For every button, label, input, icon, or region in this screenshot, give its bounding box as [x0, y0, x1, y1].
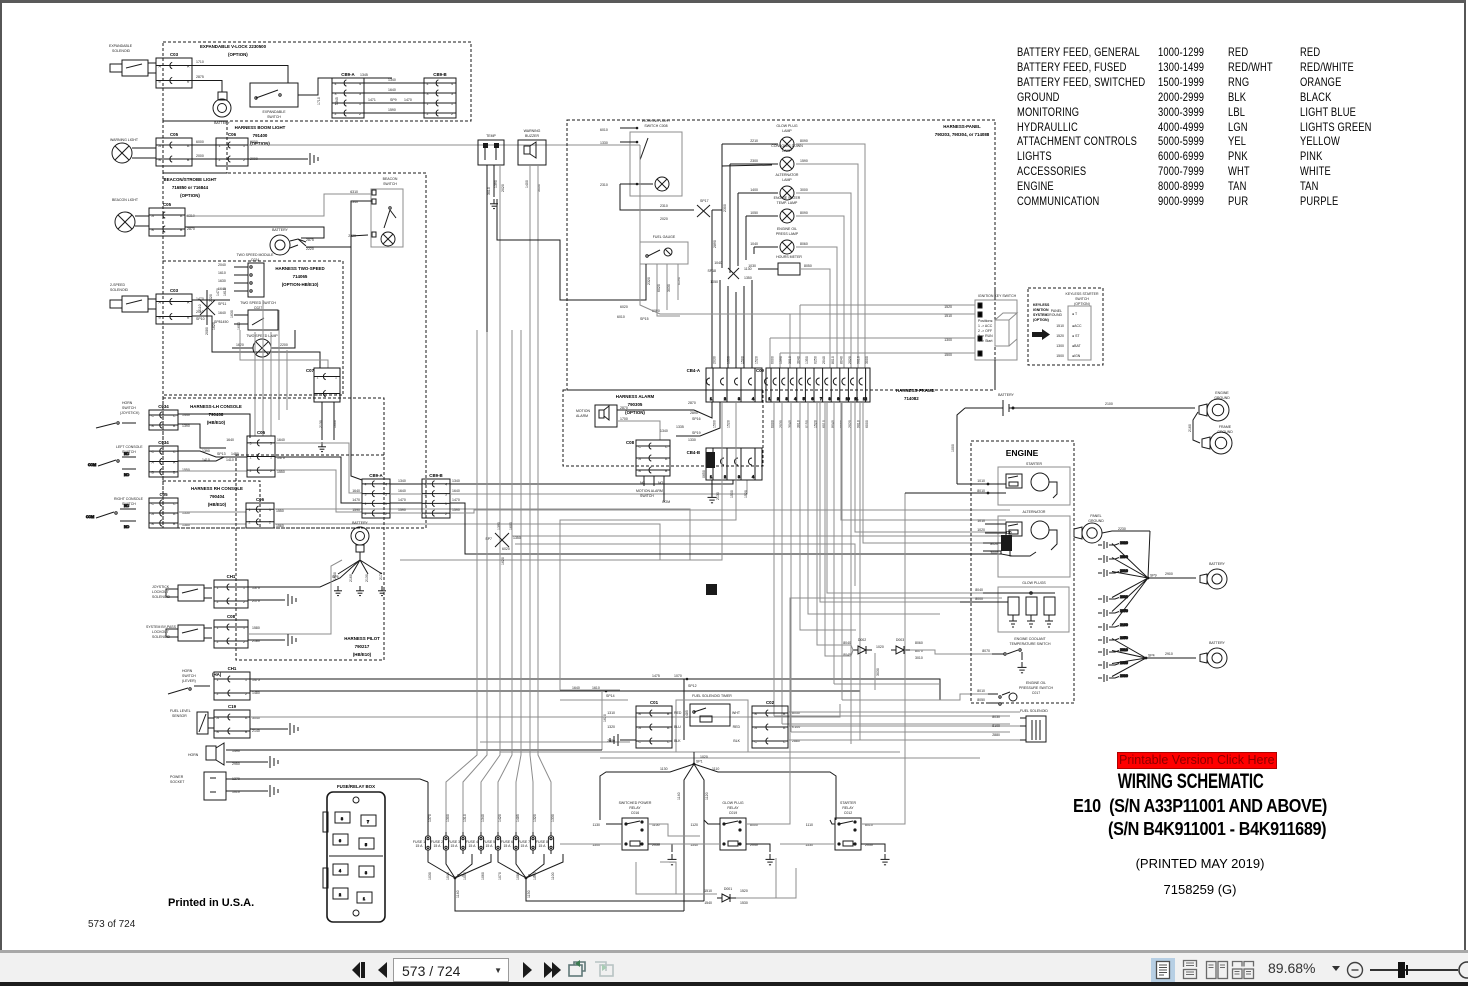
svg-text:MOTION: MOTION: [576, 409, 590, 413]
svg-text:B: B: [217, 730, 220, 734]
svg-text:C05: C05: [159, 492, 168, 497]
wire 1000 drop: [957, 408, 965, 484]
svg-text:C: C: [783, 740, 786, 744]
svg-text:1: 1: [217, 626, 219, 630]
wire 1640 top: [364, 92, 424, 94]
svg-text:A: A: [173, 460, 176, 464]
svg-text:1350: 1350: [513, 536, 521, 540]
svg-text:TEMP: TEMP: [486, 134, 496, 138]
wire 1480 long: [250, 690, 860, 692]
svg-text:FRAME: FRAME: [1219, 425, 1232, 429]
motion alarm switch wires: [644, 476, 664, 502]
wire 1030 hours: [758, 268, 778, 270]
svg-text:C: C: [173, 414, 176, 418]
svg-text:1600: 1600: [509, 522, 513, 530]
connector C06 rh: [246, 497, 274, 528]
svg-text:BEACON LIGHT: BEACON LIGHT: [112, 198, 139, 202]
printable version link: [1117, 752, 1277, 769]
wire ts bundle right: [192, 299, 230, 301]
connector C05 boom: [156, 132, 192, 166]
svg-text:3: 3: [359, 92, 361, 96]
svg-text:1710: 1710: [196, 60, 204, 64]
wire 1390 down: [499, 165, 501, 332]
wire 8040 gp: [983, 592, 1008, 594]
wire fg 6020: [656, 264, 658, 310]
working light switch pins: [620, 127, 648, 186]
keyless switch inner box: [1068, 306, 1091, 360]
connector C19 fuel level: [214, 704, 250, 738]
svg-text:1110: 1110: [712, 767, 719, 771]
wire cb9 1470: [390, 502, 422, 504]
svg-text:2: 2: [724, 397, 726, 401]
svg-text:2320: 2320: [647, 277, 651, 285]
svg-text:BLK: BLK: [674, 739, 681, 743]
svg-text:1500: 1500: [741, 356, 745, 364]
wire 2210 to GLOW PLUG: [722, 143, 778, 145]
connector C01 timer: [636, 700, 672, 748]
wire K100 t: [788, 725, 1020, 727]
wire d002 in2: [836, 645, 853, 650]
svg-text:3040: 3040: [796, 356, 800, 364]
svg-text:6000: 6000: [196, 140, 204, 144]
wire wl lamp: [638, 183, 653, 185]
svg-text:BLU: BLU: [674, 725, 681, 729]
long run 1350: [512, 535, 1010, 537]
svg-text:5: 5: [365, 843, 367, 847]
svg-text:1390: 1390: [497, 522, 501, 530]
svg-text:4: 4: [451, 82, 453, 86]
ring terminal engine ground: [1199, 399, 1229, 421]
two-speed drop bundle to C05 mid: [255, 300, 287, 436]
wire 1510 key: [790, 313, 975, 315]
splice SP3: [525, 874, 535, 880]
wire 1471 SP9 1470: [364, 102, 424, 104]
svg-text:HORN: HORN: [122, 401, 133, 405]
svg-text:C08: C08: [227, 614, 236, 619]
svg-text:1: 1: [768, 397, 770, 401]
svg-text:CB9-B: CB9-B: [433, 72, 446, 77]
svg-text:SP1: SP1: [696, 760, 703, 764]
svg-text:4: 4: [425, 483, 427, 487]
wire 1370 long: [226, 779, 428, 782]
svg-text:790217: 790217: [355, 644, 370, 649]
wire 1020 alt: [985, 532, 1006, 534]
svg-text:C019: C019: [729, 811, 737, 815]
svg-text:1510: 1510: [704, 889, 712, 893]
svg-text:LAMP: LAMP: [782, 149, 792, 153]
splice SP17 cluster: [697, 205, 710, 217]
ring terminal frame ground: [1202, 432, 1232, 454]
svg-text:2010: 2010: [1120, 648, 1128, 652]
svg-text:A: A: [187, 64, 190, 68]
fuel level sensor symbol: [197, 712, 214, 734]
wire sp19 join: [676, 402, 720, 436]
CON pin 6: [808, 368, 814, 402]
temp sender box: [478, 140, 504, 165]
svg-text:B: B: [159, 315, 162, 319]
svg-text:2300: 2300: [723, 204, 727, 212]
svg-text:2875: 2875: [306, 238, 314, 242]
svg-text:ENGINE COOLANT: ENGINE COOLANT: [1014, 637, 1046, 641]
svg-text:SP12: SP12: [688, 684, 697, 688]
svg-text:2 -> OFF: 2 -> OFF: [978, 329, 992, 333]
svg-text:C02: C02: [766, 700, 775, 705]
svg-text:1350: 1350: [744, 276, 752, 280]
wire color legend table: [1017, 0, 1457, 1]
svg-text:1: 1: [217, 678, 219, 682]
svg-text:STARTER: STARTER: [840, 801, 856, 805]
wire 1050 to ENGINE WATER: [746, 215, 778, 217]
ignition key switch box: [975, 300, 1017, 360]
keyless arrow: [1032, 329, 1050, 340]
svg-text:D003: D003: [896, 638, 904, 642]
svg-text:1: 1: [425, 502, 427, 506]
svg-text:HARNESS BOOM LIGHT: HARNESS BOOM LIGHT: [235, 125, 286, 130]
svg-text:HARNESS ALARM: HARNESS ALARM: [616, 394, 655, 399]
CON pin 2: [773, 368, 780, 402]
svg-text:● ST: ● ST: [1072, 334, 1080, 338]
svg-text:CB4-B: CB4-B: [687, 450, 700, 455]
svg-text:HARNESS-LH CONSOLE: HARNESS-LH CONSOLE: [190, 404, 242, 409]
svg-text:A: A: [152, 512, 155, 516]
svg-text:1 -> ACC: 1 -> ACC: [978, 324, 993, 328]
wire 2140 gnd: [250, 728, 288, 730]
svg-text:B: B: [152, 228, 155, 232]
svg-text:2010: 2010: [1120, 569, 1128, 573]
svg-text:B: B: [639, 469, 642, 473]
svg-text:4: 4: [359, 82, 361, 86]
starter pin dots: [987, 483, 990, 486]
alternator box: [998, 516, 1070, 577]
wire 3000 alt: [983, 551, 1012, 556]
wire 3030 drop: [874, 653, 876, 690]
ground joystick lockout: [288, 594, 296, 606]
fuse 1320/1090: [530, 832, 535, 854]
svg-text:BEACON: BEACON: [383, 177, 398, 181]
svg-text:2: 2: [270, 469, 272, 473]
svg-text:WHT: WHT: [732, 711, 741, 715]
svg-text:1470: 1470: [452, 498, 460, 502]
svg-text:1100: 1100: [551, 872, 555, 880]
svg-text:2080: 2080: [1120, 674, 1128, 678]
svg-text:L: L: [1003, 546, 1005, 550]
option box EXPANDABLE V-LOCK: [163, 42, 471, 121]
svg-text:8090: 8090: [800, 139, 808, 143]
svg-text:BATTERY: BATTERY: [1209, 562, 1225, 566]
svg-text:SWITCH: SWITCH: [122, 406, 136, 410]
ground stub 2030: [1098, 661, 1128, 669]
svg-text:WARNING LIGHT: WARNING LIGHT: [110, 138, 139, 142]
main title: [1083, 770, 1299, 794]
svg-text:(HB/E10): (HB/E10): [353, 652, 372, 657]
CON pin 12: [859, 368, 867, 402]
svg-text:1470: 1470: [216, 288, 220, 296]
svg-text:3: 3: [365, 871, 367, 875]
ground power socket: [270, 785, 278, 797]
splice SP7 cluster: [495, 533, 509, 547]
svg-text:SWITCH: SWITCH: [640, 494, 654, 498]
svg-text:6000: 6000: [865, 420, 869, 428]
svg-text:2: 2: [243, 600, 245, 604]
svg-text:1: 1: [445, 502, 447, 506]
connector CB9-A top: [332, 72, 364, 118]
svg-text:1520: 1520: [755, 356, 759, 364]
svg-text:1: 1: [243, 144, 245, 148]
svg-text:1: 1: [710, 397, 712, 401]
svg-text:(OPTION): (OPTION): [228, 52, 248, 57]
svg-text:ENGINE: ENGINE: [1215, 391, 1229, 395]
svg-text:C: C: [152, 450, 155, 454]
wire 3030 down: [537, 165, 539, 332]
wire beacon 1340 down: [351, 201, 372, 480]
lamp ENGINE OIL: [780, 240, 794, 254]
svg-text:8040: 8040: [843, 641, 851, 645]
single page layout button (active): [1151, 957, 1175, 983]
ground boom light: [310, 153, 318, 165]
svg-text:B: B: [180, 228, 183, 232]
svg-text:10: 10: [846, 397, 850, 401]
svg-text:2160: 2160: [1120, 623, 1128, 627]
svg-text:716850 or 716844: 716850 or 716844: [172, 185, 209, 190]
wire cb9b right 1590: [450, 510, 1010, 513]
svg-text:ALARM: ALARM: [576, 414, 588, 418]
svg-text:8010: 8010: [831, 356, 835, 364]
wire d003 out 8070: [910, 650, 992, 654]
ground horn: [270, 756, 278, 768]
svg-text:Printed in U.S.A.: Printed in U.S.A.: [168, 897, 254, 909]
svg-text:9010: 9010: [857, 356, 861, 364]
svg-text:2030: 2030: [713, 356, 717, 364]
ground fan to SP9: [1112, 531, 1196, 626]
svg-text:2230: 2230: [1118, 527, 1126, 531]
splice SP1: [693, 760, 703, 766]
connector C03 two-speed: [156, 288, 192, 324]
CON-B pin 2: [721, 448, 728, 480]
svg-text:IGNITION: IGNITION: [1033, 308, 1049, 312]
svg-text:2040: 2040: [822, 356, 826, 364]
svg-text:7: 7: [820, 397, 822, 401]
svg-text:1310: 1310: [463, 814, 467, 822]
svg-text:1340: 1340: [660, 429, 668, 433]
wire 1550 long: [275, 470, 362, 512]
wire c07 down2: [333, 402, 335, 440]
svg-text:2: 2: [217, 640, 219, 644]
svg-text:714082: 714082: [904, 396, 919, 401]
svg-text:A: A: [639, 457, 642, 461]
fuel gauge box: [640, 242, 688, 264]
svg-text:1310: 1310: [607, 711, 615, 715]
battery fanout wires: [338, 552, 382, 574]
option box keyless starter: [1028, 288, 1103, 365]
next page button: [518, 957, 536, 983]
svg-text:1370: 1370: [428, 814, 432, 822]
svg-text:ALTERNATOR: ALTERNATOR: [1023, 510, 1046, 514]
svg-text:1070: 1070: [674, 674, 682, 678]
wire warning light B: [132, 157, 156, 159]
wire 2310 sp17: [620, 184, 694, 210]
wire 1390 lh: [178, 424, 226, 448]
svg-text:3: 3: [445, 492, 447, 496]
CON pin 11: [851, 368, 859, 402]
fuse 1370/1030: [425, 832, 430, 854]
wire 1470 long: [275, 457, 362, 503]
fuel solenoid symbol: [1020, 716, 1046, 742]
svg-text:1: 1: [243, 626, 245, 630]
svg-text:C024: C024: [251, 258, 259, 262]
svg-text:15 A: 15 A: [520, 844, 528, 848]
warning buzzer box: [518, 140, 546, 165]
svg-text:1500: 1500: [944, 353, 952, 357]
ground stub 2890: [1098, 555, 1128, 563]
svg-text:3030: 3030: [876, 668, 880, 676]
splice SP2: [454, 874, 464, 880]
svg-text:FUEL SOLENOID: FUEL SOLENOID: [1020, 709, 1048, 713]
svg-text:15 A: 15 A: [485, 844, 493, 848]
svg-text:3010: 3010: [915, 656, 923, 660]
wire key switch drop2: [994, 360, 996, 390]
last page button: [540, 957, 564, 983]
page number field: [393, 958, 509, 982]
engine dashed box: [971, 441, 1074, 703]
fuse box screws: [353, 797, 359, 803]
svg-text:1040: 1040: [750, 242, 758, 246]
wire 1620 down: [601, 691, 603, 750]
svg-text:1350: 1350: [805, 356, 809, 364]
svg-text:C0: C0: [1006, 530, 1012, 535]
svg-text:KEYLESS: KEYLESS: [1033, 303, 1050, 307]
zoom dropdown arrow: [1330, 963, 1342, 975]
svg-text:2080: 2080: [205, 327, 209, 335]
connector CB9-B top: [424, 72, 456, 118]
svg-text:B: B: [152, 471, 155, 475]
wire 1010 alt: [985, 523, 1006, 525]
svg-text:1520: 1520: [744, 490, 748, 498]
wire 2950 gnd: [226, 761, 268, 763]
ground fuel level: [290, 723, 298, 735]
svg-text:3000: 3000: [990, 551, 998, 555]
CON-A pin 3: [735, 368, 742, 402]
connector C05 beacon: [149, 202, 185, 236]
wire 1640 long: [275, 443, 362, 493]
svg-text:2000: 2000: [196, 154, 204, 158]
svg-text:1590: 1590: [398, 508, 406, 512]
svg-text:3: 3: [365, 492, 367, 496]
CON-B pin 1: [707, 448, 714, 480]
svg-text:15 A: 15 A: [450, 844, 458, 848]
fuse 1330/1100: [548, 832, 553, 854]
connector C05 lh mid: [247, 430, 275, 477]
wire 6000 long: [248, 144, 640, 146]
svg-text:TEMPERATURE SWITCH: TEMPERATURE SWITCH: [1010, 642, 1051, 646]
svg-text:CONSOLES DOWN: CONSOLES DOWN: [771, 144, 803, 148]
svg-text:2130: 2130: [716, 492, 720, 500]
svg-text:NO: NO: [124, 525, 130, 529]
wire 6310 to switch: [185, 194, 372, 216]
horn switch joystick symbol: [96, 422, 136, 428]
wire 3010 down: [486, 165, 488, 332]
CON pin 10: [842, 368, 850, 402]
svg-text:C05: C05: [170, 132, 179, 137]
CON pin 9: [833, 368, 840, 402]
wire 1500 key: [780, 352, 975, 354]
svg-text:1640: 1640: [388, 88, 396, 92]
svg-text:1470: 1470: [404, 98, 412, 102]
CON-A pin 2: [721, 368, 728, 402]
svg-text:4: 4: [427, 82, 429, 86]
wire cb9b right 1640: [450, 480, 747, 494]
wire feed bundle 1330: [538, 330, 551, 832]
fuse 1300/1040: [443, 832, 448, 854]
wire cb9b right 1340: [450, 480, 733, 484]
svg-text:SYSTEM BY-PASS: SYSTEM BY-PASS: [146, 625, 177, 629]
lamp CONSOLES DOWN: [780, 157, 794, 171]
svg-text:HORN: HORN: [182, 669, 193, 673]
svg-text:FUEL LEVEL: FUEL LEVEL: [170, 709, 191, 713]
svg-text:B: B: [187, 315, 190, 319]
svg-text:3: 3: [425, 492, 427, 496]
svg-text:B: B: [187, 79, 190, 83]
fuse box slot 8: [335, 812, 350, 823]
svg-text:8070: 8070: [982, 649, 990, 653]
svg-text:1120: 1120: [690, 823, 698, 827]
svg-text:POWER: POWER: [170, 775, 184, 779]
svg-text:1390: 1390: [494, 180, 498, 188]
svg-text:HARNESS PILOT: HARNESS PILOT: [344, 636, 380, 641]
svg-text:1630: 1630: [230, 310, 234, 318]
svg-text:1130: 1130: [744, 267, 752, 271]
svg-text:●IGN: ●IGN: [1072, 354, 1081, 358]
svg-text:1470: 1470: [398, 498, 406, 502]
svg-text:1: 1: [710, 475, 712, 479]
svg-text:PRESSURE SWITCH: PRESSURE SWITCH: [1019, 686, 1054, 690]
ground fan to SP4: [1112, 639, 1196, 677]
svg-text:1390: 1390: [182, 424, 190, 428]
CON pin 7: [816, 368, 823, 402]
svg-text:SP9: SP9: [1150, 574, 1157, 578]
svg-text:6010: 6010: [600, 128, 608, 132]
svg-text:● T: ● T: [1072, 312, 1078, 316]
svg-text:A: A: [665, 457, 668, 461]
svg-text:1140: 1140: [677, 792, 681, 800]
svg-text:●ACC: ●ACC: [1072, 324, 1082, 328]
svg-text:1640: 1640: [218, 311, 226, 315]
svg-text:8010: 8010: [977, 689, 985, 693]
wire L485 down: [683, 679, 685, 740]
svg-text:1640: 1640: [398, 489, 406, 493]
ground buzzer: [490, 199, 498, 209]
svg-text:2: 2: [243, 158, 245, 162]
svg-text:1: 1: [363, 897, 365, 901]
svg-text:791400: 791400: [253, 133, 268, 138]
svg-text:C08: C08: [626, 440, 635, 445]
svg-text:1150: 1150: [527, 890, 531, 898]
svg-text:2: 2: [219, 158, 221, 162]
svg-text:1340: 1340: [398, 479, 406, 483]
svg-text:2: 2: [724, 475, 726, 479]
svg-text:(OPTION-HB/E10): (OPTION-HB/E10): [282, 282, 319, 287]
ground bf1: [334, 586, 342, 596]
svg-text:LOCKOUT: LOCKOUT: [152, 630, 170, 634]
svg-text:A: A: [152, 460, 155, 464]
ground coolant switch: [1018, 662, 1027, 673]
svg-text:WARNING: WARNING: [524, 129, 541, 133]
svg-text:GROUND: GROUND: [1214, 396, 1230, 400]
svg-text:SWITCH: SWITCH: [182, 674, 196, 678]
svg-text:B: B: [667, 712, 670, 716]
svg-text:(JOYSTICK): (JOYSTICK): [120, 411, 139, 415]
svg-text:SYSTEM: SYSTEM: [1033, 313, 1047, 317]
battery cell dot: [1012, 407, 1015, 410]
